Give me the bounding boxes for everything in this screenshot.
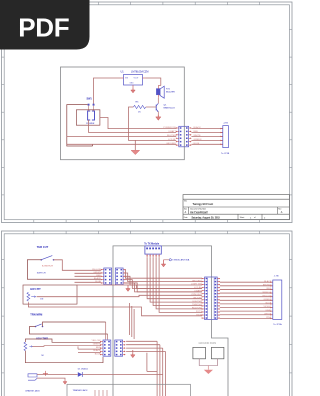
svg-text:BLUE: BLUE — [266, 303, 272, 305]
svg-text:J-TB: J-TB — [223, 122, 228, 124]
svg-text:Title: Title — [184, 200, 187, 203]
svg-text:V-BATT: V-BATT — [168, 130, 176, 133]
svg-text:LM78L05ACZM: LM78L05ACZM — [131, 70, 149, 73]
svg-text:HOV TMR: HOV TMR — [36, 336, 48, 340]
svg-text:TRN NRM: TRN NRM — [30, 312, 42, 316]
svg-text:THR/CH3: THR/CH3 — [192, 304, 202, 306]
svg-text:Document Number: Document Number — [190, 207, 206, 210]
svg-text:GRAY: GRAY — [265, 309, 272, 312]
svg-text:Turnigy 9X Front: Turnigy 9X Front — [193, 202, 214, 206]
svg-text:PPM OUT: PPM OUT — [192, 294, 203, 296]
svg-text:VIOLET: VIOLET — [264, 306, 272, 308]
svg-text:Saturday, August 29, 2015: Saturday, August 29, 2015 — [192, 216, 221, 219]
svg-text:Date:: Date: — [184, 216, 189, 219]
svg-text:RED: RED — [267, 288, 272, 290]
svg-text:BLACK: BLACK — [93, 349, 101, 352]
svg-text:Rev: Rev — [278, 208, 281, 210]
svg-text:WHITE: WHITE — [264, 313, 272, 315]
svg-text:LCD BL: LCD BL — [194, 287, 202, 289]
svg-text:Size: Size — [184, 208, 187, 210]
svg-text:MMBT2222: MMBT2222 — [164, 108, 176, 110]
svg-text:D1 1N4001: D1 1N4001 — [78, 368, 89, 370]
svg-text:Sheet: Sheet — [240, 216, 245, 219]
svg-text:To TX Module: To TX Module — [144, 244, 160, 246]
svg-text:PINK: PINK — [266, 317, 272, 319]
svg-text:GROUND: GROUND — [166, 143, 176, 145]
svg-text:GREEN: GREEN — [264, 299, 272, 301]
svg-text:BLUE: BLUE — [95, 354, 101, 356]
svg-text:To #P1B: To #P1B — [221, 153, 230, 155]
svg-text:TXMOD ANT N/A: TXMOD ANT N/A — [172, 259, 190, 262]
svg-text:YELLOW: YELLOW — [91, 340, 101, 342]
svg-text:RUD/CH4: RUD/CH4 — [192, 308, 203, 310]
svg-text:THR CUT: THR CUT — [37, 245, 49, 249]
svg-text:To #P1A: To #P1A — [273, 323, 282, 326]
svg-text:1M: 1M — [40, 299, 43, 301]
svg-text:BLACK: BLACK — [264, 280, 272, 283]
svg-text:GROUND PADS: GROUND PADS — [198, 342, 216, 345]
svg-text:GROUND: GROUND — [192, 280, 202, 282]
svg-text:E-SWITCH: E-SWITCH — [42, 266, 53, 268]
svg-text:RED: RED — [194, 131, 199, 133]
svg-text:AIL/CH1: AIL/CH1 — [193, 296, 202, 299]
svg-text:LCD BL: LCD BL — [168, 139, 176, 141]
svg-text:YELLOW: YELLOW — [262, 295, 272, 297]
svg-text:J-TB: J-TB — [274, 276, 279, 278]
svg-text:RED: RED — [96, 347, 101, 349]
svg-text:POT3: POT3 — [196, 311, 202, 313]
svg-text:BLUE: BLUE — [194, 143, 200, 145]
svg-text:TRAINER JACK: TRAINER JACK — [73, 389, 89, 392]
svg-text:GND: GND — [130, 83, 135, 85]
svg-text:RX-TX9XFRONT: RX-TX9XFRONT — [190, 212, 208, 214]
svg-text:ELE/CH2: ELE/CH2 — [192, 301, 202, 303]
svg-text:BUZZER: BUZZER — [166, 92, 175, 94]
svg-text:POWER SW: POWER SW — [163, 127, 176, 129]
svg-text:BLACK: BLACK — [194, 126, 202, 129]
svg-text:SW1: SW1 — [87, 98, 93, 101]
svg-text:SW A: SW A — [196, 314, 202, 317]
svg-text:V-BATT: V-BATT — [194, 290, 202, 293]
svg-text:HOV PIT: HOV PIT — [30, 287, 41, 291]
svg-text:POWER: POWER — [86, 123, 95, 125]
svg-text:ORANGE: ORANGE — [262, 291, 272, 294]
svg-text:LIGHT SW: LIGHT SW — [191, 284, 202, 286]
svg-text:CHARGE JACK: CHARGE JACK — [25, 389, 40, 392]
svg-text:GREEN: GREEN — [93, 343, 101, 345]
svg-text:PDF: PDF — [18, 13, 69, 43]
svg-text:WHITE: WHITE — [194, 135, 202, 137]
svg-text:BUZZER: BUZZER — [167, 135, 176, 137]
svg-text:SWITCH: SWITCH — [37, 273, 46, 275]
svg-text:BROWN: BROWN — [263, 285, 272, 287]
svg-text:GREEN: GREEN — [194, 139, 202, 141]
